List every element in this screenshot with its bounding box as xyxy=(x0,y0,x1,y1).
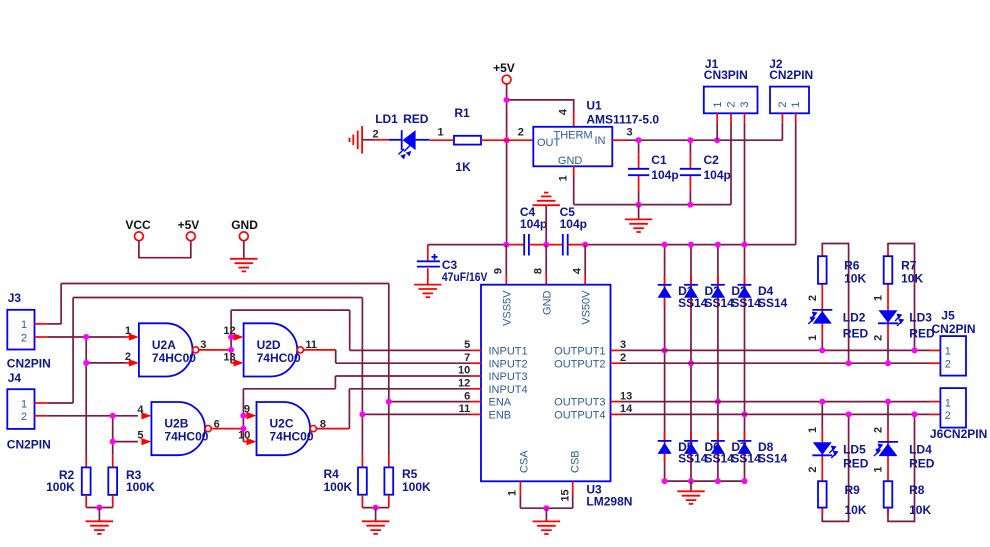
svg-text:104p: 104p xyxy=(651,168,678,182)
ground under C3 xyxy=(414,285,441,298)
svg-text:100K: 100K xyxy=(46,480,75,494)
wire U2C output pin8 to INPUT4 xyxy=(317,428,350,430)
svg-text:RED: RED xyxy=(403,112,429,126)
pin 2 arrow of U2A xyxy=(125,362,129,364)
wire riser U3 pin8 xyxy=(545,245,547,275)
svg-text:+5V: +5V xyxy=(178,218,200,232)
svg-text:VCC: VCC xyxy=(125,218,151,232)
junction C1 top xyxy=(636,137,642,143)
pin stub right U3 xyxy=(611,362,621,364)
junction C1 bottom xyxy=(636,202,642,208)
wire rail VS50V to J2 pin1 xyxy=(585,244,796,246)
svg-text:2: 2 xyxy=(620,352,626,364)
svg-text:2: 2 xyxy=(807,295,819,301)
junction J1 pin1 at +5V wire xyxy=(714,137,720,143)
junction +5V branch xyxy=(504,97,510,103)
wire R2 R3 to ground xyxy=(85,495,87,508)
svg-text:U1: U1 xyxy=(586,98,602,112)
svg-text:1: 1 xyxy=(125,325,131,337)
wire J2 pin1 to rail xyxy=(795,113,797,122)
svg-text:2: 2 xyxy=(21,411,27,423)
wire OUTPUT4 to J6 pin2 xyxy=(621,413,931,415)
svg-text:2: 2 xyxy=(873,335,885,341)
wire J1 pin1 stub xyxy=(716,113,718,122)
svg-text:3: 3 xyxy=(627,127,633,139)
svg-text:9: 9 xyxy=(493,268,505,274)
svg-text:10: 10 xyxy=(238,430,250,442)
svg-text:10K: 10K xyxy=(845,503,867,517)
connector J6 box xyxy=(940,388,966,428)
wire down to R3 xyxy=(112,442,114,456)
junction CSA-CSB xyxy=(543,505,549,511)
svg-text:CN2PIN: CN2PIN xyxy=(932,322,976,336)
svg-text:LD4: LD4 xyxy=(909,443,932,457)
wire +5V branch to U1 pin4 xyxy=(507,100,574,113)
wire R1 to U1 OUT xyxy=(481,139,533,141)
svg-text:SS14: SS14 xyxy=(731,296,761,310)
svg-text:R7: R7 xyxy=(901,259,917,273)
capacitor C5 xyxy=(546,244,563,246)
svg-text:R8: R8 xyxy=(909,483,925,497)
svg-text:+5V: +5V xyxy=(493,61,515,75)
wire J4 pin1 riser xyxy=(35,402,48,404)
junction LD2 at OUTPUT1 xyxy=(819,347,825,353)
svg-text:LD3: LD3 xyxy=(909,311,932,325)
LED LD1 xyxy=(401,130,403,150)
svg-text:INPUT3: INPUT3 xyxy=(489,371,528,383)
regulator U1 box xyxy=(533,127,612,167)
ground symbol (legend) xyxy=(230,259,257,272)
junction R4-R5 ground xyxy=(373,505,379,511)
svg-text:LD5: LD5 xyxy=(843,443,866,457)
svg-text:104p: 104p xyxy=(520,217,547,231)
wire OUTPUT1 to J5 pin1 xyxy=(621,349,931,351)
svg-text:2: 2 xyxy=(726,101,738,107)
wire R7 bridge xyxy=(888,244,915,364)
wire +5V stem xyxy=(506,84,508,100)
pin stub left U3 xyxy=(471,349,482,351)
junction diode column bottom xyxy=(688,478,694,484)
svg-text:OUTPUT3: OUTPUT3 xyxy=(554,397,605,409)
svg-text:GND: GND xyxy=(558,155,583,167)
wire diode column D2/D6 xyxy=(690,245,692,482)
wire J1 pin3 to rail xyxy=(744,113,746,122)
svg-text:LD1: LD1 xyxy=(375,112,398,126)
connector J1 box xyxy=(704,87,758,114)
wire line B down to ENB and R4 xyxy=(361,298,363,415)
junction C2 bottom xyxy=(687,202,693,208)
junction LD4 at OUTPUT3 xyxy=(885,399,891,405)
wire J2 pin2 to +5V wire xyxy=(781,113,783,122)
pin 13 arrow of U2D xyxy=(234,359,244,366)
gate U2B xyxy=(151,402,205,455)
connector J4 box xyxy=(7,389,34,429)
svg-text:CSA: CSA xyxy=(519,450,531,473)
svg-text:1: 1 xyxy=(21,319,27,331)
capacitor C2 xyxy=(689,140,691,153)
svg-text:11: 11 xyxy=(305,339,317,351)
LED LD5 xyxy=(813,442,832,455)
svg-text:ENB: ENB xyxy=(489,410,512,422)
svg-text:104p: 104p xyxy=(560,217,587,231)
LED LD4 xyxy=(878,441,898,443)
wire riser U3 pin9 xyxy=(505,245,507,275)
svg-text:1: 1 xyxy=(873,295,885,301)
junction LD3 at OUTPUT2 xyxy=(885,360,891,366)
power port VCC xyxy=(135,232,144,241)
diode D2 xyxy=(684,284,698,286)
svg-text:100K: 100K xyxy=(402,480,431,494)
svg-text:2: 2 xyxy=(777,101,789,107)
wire U2D output pin11 to INPUT2 xyxy=(303,349,336,351)
svg-text:VSS5V: VSS5V xyxy=(502,290,514,326)
svg-text:1: 1 xyxy=(21,398,27,410)
capacitor C4 xyxy=(506,244,524,246)
wire diode column D4/D8 xyxy=(744,245,746,482)
svg-text:1: 1 xyxy=(712,101,724,107)
wire J4 pin2 to U2B xyxy=(35,415,48,417)
ground under diodes xyxy=(690,481,692,491)
junction D4 at OUTPUT4 xyxy=(742,411,748,417)
wire U1 GND pin1 down xyxy=(573,166,575,175)
svg-text:11: 11 xyxy=(459,403,471,415)
pin stub left U3 xyxy=(471,388,482,390)
svg-text:74HC00: 74HC00 xyxy=(270,430,314,444)
junction +5V at R1 row xyxy=(504,137,510,143)
wire riser U3 pin4 xyxy=(584,245,586,275)
resistor R7 xyxy=(884,256,893,284)
pin stub left U3 xyxy=(471,375,482,377)
svg-text:R9: R9 xyxy=(845,483,861,497)
svg-text:1: 1 xyxy=(790,101,802,107)
wire LD1 to R1 xyxy=(429,139,454,141)
svg-text:CN3PIN: CN3PIN xyxy=(704,68,748,82)
svg-text:1: 1 xyxy=(807,335,819,341)
svg-text:2: 2 xyxy=(945,359,951,371)
resistor R3 xyxy=(108,467,117,495)
junction diode column bottom xyxy=(662,478,668,484)
wire J3 pin2 to U2A xyxy=(35,336,48,338)
svg-text:4: 4 xyxy=(571,267,583,274)
wire diode bottom join xyxy=(665,480,745,482)
wire U2A out to U2D inputs xyxy=(230,310,232,363)
svg-text:VS50V: VS50V xyxy=(581,290,593,325)
svg-text:5: 5 xyxy=(464,339,470,351)
ground under C1 xyxy=(638,205,640,219)
svg-text:1: 1 xyxy=(873,467,885,473)
resistor R1 xyxy=(454,136,481,145)
wire rail C3 to VSS5V junction xyxy=(428,244,507,246)
svg-text:10K: 10K xyxy=(909,503,931,517)
junction U2C input9 xyxy=(240,413,246,419)
svg-text:3: 3 xyxy=(620,339,626,351)
gate U2D xyxy=(244,323,298,376)
wire U3 CSA pin1 xyxy=(519,481,521,495)
wire diode column D1/D5 xyxy=(664,245,666,482)
wire R9 bridge xyxy=(822,402,848,522)
svg-text:100K: 100K xyxy=(324,480,353,494)
svg-text:IN: IN xyxy=(595,135,606,147)
power +5V top xyxy=(502,75,511,84)
junction riser D at OUTPUT4 xyxy=(912,411,918,417)
junction U2A output xyxy=(228,347,234,353)
pin stub right U3 xyxy=(611,349,621,351)
diode D7 xyxy=(711,440,725,442)
svg-text:74HC00: 74HC00 xyxy=(164,430,208,444)
svg-text:J3: J3 xyxy=(8,291,22,305)
svg-text:AMS1117-5.0: AMS1117-5.0 xyxy=(586,112,659,126)
resistor R2 xyxy=(82,467,91,495)
wire VCC to +5V legend xyxy=(139,241,191,258)
svg-text:10: 10 xyxy=(458,365,470,377)
wire OUTPUT2 to J5 pin2 xyxy=(621,362,931,364)
resistor R4 xyxy=(358,467,367,494)
svg-text:GND: GND xyxy=(231,218,258,232)
wire U2B output pin6 xyxy=(211,428,243,430)
svg-text:2: 2 xyxy=(518,127,524,139)
junction R2-R3 ground xyxy=(96,505,102,511)
junction J4 pin2 branch xyxy=(110,413,116,419)
junction ENA xyxy=(386,399,392,405)
svg-text:GND: GND xyxy=(542,290,554,315)
svg-text:1: 1 xyxy=(557,175,569,181)
pin stub right U3 xyxy=(611,401,621,403)
pin 10 arrow of U2C xyxy=(247,438,257,445)
gate U2C xyxy=(257,402,311,455)
svg-text:100K: 100K xyxy=(126,480,155,494)
diode D8 xyxy=(738,440,752,442)
svg-text:LD2: LD2 xyxy=(843,311,866,325)
pin 12 arrow of U2D xyxy=(234,333,244,340)
svg-text:7: 7 xyxy=(464,352,470,364)
svg-text:INPUT1: INPUT1 xyxy=(489,346,528,358)
svg-text:2: 2 xyxy=(373,128,379,140)
diode D6 xyxy=(684,440,698,442)
svg-text:RED: RED xyxy=(843,457,869,471)
svg-text:2: 2 xyxy=(807,467,819,473)
svg-text:13: 13 xyxy=(223,351,235,363)
svg-text:1: 1 xyxy=(945,397,951,409)
pin stub right U3 xyxy=(611,413,621,415)
svg-text:8: 8 xyxy=(320,418,326,430)
svg-text:2: 2 xyxy=(945,410,951,422)
junction diode column top xyxy=(742,242,748,248)
svg-text:5: 5 xyxy=(137,430,143,442)
svg-text:4: 4 xyxy=(557,108,569,115)
svg-text:2: 2 xyxy=(21,332,27,344)
pin stub left U3 xyxy=(471,362,482,364)
svg-text:1: 1 xyxy=(438,127,444,139)
svg-text:3: 3 xyxy=(739,101,751,107)
ground (rotated) at LD1 xyxy=(350,126,363,153)
ground under R2 R3 xyxy=(98,508,100,521)
connector J3 box xyxy=(7,310,34,350)
svg-text:6: 6 xyxy=(214,418,220,430)
resistor R6 xyxy=(818,256,827,284)
svg-text:CSB: CSB xyxy=(569,450,581,473)
ground under U3 xyxy=(545,508,547,521)
ground under R4 R5 xyxy=(375,508,377,521)
capacitor C3 (electrolytic) xyxy=(427,245,429,262)
wire R4 R5 to ground xyxy=(361,495,363,508)
svg-text:SS14: SS14 xyxy=(758,296,788,310)
wire R6 bridge xyxy=(822,244,848,364)
svg-text:2: 2 xyxy=(873,427,885,433)
wire ground net U1 to J1 pin2 xyxy=(574,204,731,206)
wire J4 pin1 top run (line B) xyxy=(73,297,362,299)
capacitor C1 xyxy=(638,140,640,153)
svg-text:74HC00: 74HC00 xyxy=(152,351,196,365)
svg-text:74HC00: 74HC00 xyxy=(257,351,301,365)
junction U2B output xyxy=(240,426,246,432)
pin 9 arrow of U2C xyxy=(247,412,257,419)
junction riser B at OUTPUT1 xyxy=(912,347,918,353)
junction rail GND xyxy=(543,242,549,248)
wire LD1 ground stem xyxy=(362,139,375,141)
junction diode column top xyxy=(662,242,668,248)
diode D5 xyxy=(658,440,672,442)
wire down to R2 xyxy=(85,363,87,456)
pin 1 arrow of U2A xyxy=(125,336,129,338)
svg-text:J6CN2PIN: J6CN2PIN xyxy=(930,427,987,441)
wire diode column D3/D7 xyxy=(717,245,719,482)
power port +5V (legend) xyxy=(186,232,195,241)
ground (inverted) above rail xyxy=(545,206,547,245)
svg-text:SS14: SS14 xyxy=(678,296,708,310)
svg-text:ENA: ENA xyxy=(489,397,512,409)
junction J3 pin2 branch xyxy=(83,334,89,340)
svg-text:1: 1 xyxy=(807,427,819,433)
pin 5 arrow of U2B xyxy=(141,438,151,445)
svg-text:1: 1 xyxy=(945,346,951,358)
junction diode column top xyxy=(715,242,721,248)
svg-text:J4: J4 xyxy=(8,371,22,385)
wire CSA-CSB join xyxy=(520,507,572,509)
svg-text:4: 4 xyxy=(137,404,144,416)
wire +5V down to R1 row xyxy=(506,100,508,140)
resistor R8 xyxy=(884,481,893,507)
svg-text:OUTPUT1: OUTPUT1 xyxy=(554,346,605,358)
junction riser C at OUTPUT4 xyxy=(846,411,852,417)
svg-text:15: 15 xyxy=(560,489,572,501)
svg-text:CN2PIN: CN2PIN xyxy=(7,357,51,371)
svg-text:2: 2 xyxy=(125,351,131,363)
resistor R9 xyxy=(818,481,827,507)
svg-text:OUTPUT4: OUTPUT4 xyxy=(554,410,605,422)
diode D1 xyxy=(658,284,672,286)
svg-text:1: 1 xyxy=(506,490,518,496)
LED LD3 xyxy=(878,322,898,324)
junction rail VS50V xyxy=(582,242,588,248)
wire J3 pin1 top run (line A) xyxy=(61,283,389,285)
svg-text:OUTPUT2: OUTPUT2 xyxy=(554,358,605,370)
svg-text:SS14: SS14 xyxy=(758,452,788,466)
svg-text:6: 6 xyxy=(464,390,470,402)
junction diode column top xyxy=(688,242,694,248)
wire +5V down to rail xyxy=(506,140,508,244)
junction ENB xyxy=(359,411,365,417)
resistor R5 xyxy=(384,467,393,494)
junction D2 at OUTPUT2 xyxy=(688,360,694,366)
connector J2 box xyxy=(770,87,809,114)
wire J3 pin1 riser xyxy=(35,323,48,325)
svg-text:CN2PIN: CN2PIN xyxy=(7,437,51,451)
svg-text:13: 13 xyxy=(620,390,632,402)
pin stub left U3 xyxy=(471,413,482,415)
wire branch to U2B input5 xyxy=(112,416,114,442)
pin stub left U3 xyxy=(471,401,482,403)
svg-text:9: 9 xyxy=(244,404,250,416)
junction D1 at OUTPUT1 xyxy=(662,347,668,353)
svg-text:104p: 104p xyxy=(704,168,731,182)
wire line C to INPUT1 xyxy=(231,309,350,311)
svg-text:10K: 10K xyxy=(844,272,866,286)
connector J5 box xyxy=(940,336,966,376)
svg-text:12: 12 xyxy=(223,325,235,337)
svg-text:3: 3 xyxy=(200,339,206,351)
svg-text:1K: 1K xyxy=(455,160,471,174)
junction U2B input5 branch xyxy=(110,439,116,445)
wire GND legend stem xyxy=(243,241,245,259)
junction diode column bottom xyxy=(715,478,721,484)
svg-text:INPUT2: INPUT2 xyxy=(489,358,528,370)
svg-text:47uF/16V: 47uF/16V xyxy=(442,270,488,284)
svg-text:14: 14 xyxy=(620,403,633,415)
svg-text:C1: C1 xyxy=(651,153,667,167)
svg-text:J5: J5 xyxy=(941,309,955,323)
svg-text:RED: RED xyxy=(843,327,869,341)
wire U2B branch to INPUT3 xyxy=(243,388,335,390)
svg-text:C2: C2 xyxy=(704,153,720,167)
svg-text:12: 12 xyxy=(458,378,470,390)
wire line A down to ENA and R5 xyxy=(388,284,390,402)
svg-text:SS14: SS14 xyxy=(705,296,735,310)
gate U2A xyxy=(139,323,193,376)
svg-text:INPUT4: INPUT4 xyxy=(489,384,528,396)
power port GND (legend) xyxy=(239,232,248,241)
junction riser A at OUTPUT2 xyxy=(846,360,852,366)
LED LD2 xyxy=(812,309,832,311)
junction U2A input2 branch xyxy=(83,360,89,366)
wire U2B out to U2C inputs xyxy=(242,389,244,442)
svg-text:RED: RED xyxy=(909,457,935,471)
wire OUTPUT3 to J6 pin1 xyxy=(621,401,931,403)
junction diode column bottom xyxy=(742,478,748,484)
junction D3 at OUTPUT3 xyxy=(715,399,721,405)
wire branch to U2A input2 xyxy=(85,337,87,363)
wire U3 CSB pin15 xyxy=(572,481,574,495)
svg-text:10K: 10K xyxy=(901,272,923,286)
diode D3 xyxy=(711,284,725,286)
svg-text:R1: R1 xyxy=(454,106,470,120)
svg-text:R6: R6 xyxy=(844,259,860,273)
svg-text:LM298N: LM298N xyxy=(586,495,632,509)
svg-text:THERM: THERM xyxy=(554,130,593,142)
diode D4 xyxy=(738,284,752,286)
junction C2 top xyxy=(687,137,693,143)
junction U2D input12 xyxy=(228,334,234,340)
svg-text:CN2PIN: CN2PIN xyxy=(769,68,813,82)
pin 4 arrow of U2B xyxy=(141,412,151,419)
wire U1 IN pin3 to J2 pin2 xyxy=(612,139,625,141)
wire R8 bridge xyxy=(888,402,915,522)
svg-text:8: 8 xyxy=(532,268,544,274)
wire U2A output pin3 xyxy=(199,349,232,351)
junction rail VSS5V xyxy=(503,242,509,248)
driver U3 box xyxy=(481,285,611,482)
junction LD5 at OUTPUT3 xyxy=(819,399,825,405)
